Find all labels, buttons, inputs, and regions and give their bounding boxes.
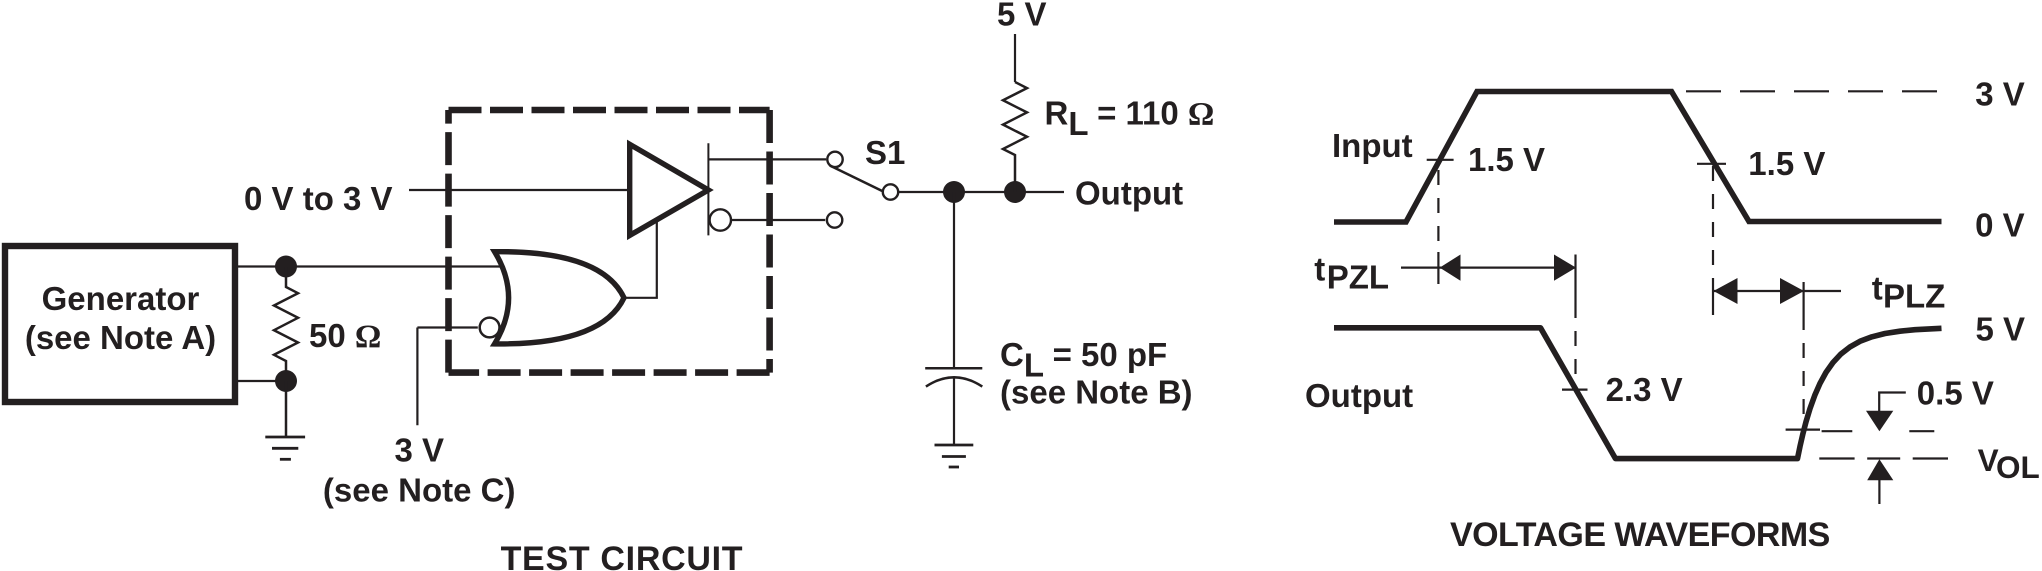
dashed guide at rising 1.5V — [1437, 170, 1439, 252]
0.5V down arrowhead — [1866, 411, 1893, 432]
0.5V leader line — [1879, 393, 1906, 413]
dashed 0.5V level line — [1822, 430, 1935, 432]
dashed 3V reference line — [1686, 90, 1945, 92]
wire generator upper output to NOR input — [238, 265, 503, 267]
svg-text:0 V to 3 V: 0 V to 3 V — [244, 180, 393, 217]
tPLZ measure line — [1714, 290, 1842, 292]
VOL up arrowhead — [1867, 459, 1893, 480]
dashed VOL level line — [1819, 457, 1948, 459]
solid tick at tPLZ left — [1712, 280, 1714, 315]
wire 5V to RL — [1014, 34, 1016, 82]
svg-text:t: t — [1872, 270, 1883, 307]
wire node to CL — [953, 192, 955, 368]
switch S1 blade — [830, 166, 882, 192]
svg-text:3 V: 3 V — [1975, 75, 2025, 112]
buffer triangle U1 — [630, 144, 709, 235]
svg-text:OL: OL — [1996, 449, 2040, 485]
wire NOR output to buffer enable — [624, 220, 657, 298]
output waveform trace — [1334, 328, 1942, 459]
dashed guide to output curve — [1802, 315, 1804, 427]
tPLZ right arrowhead — [1780, 278, 1804, 304]
svg-text:(see Note C): (see Note C) — [323, 471, 516, 508]
svg-text:(see Note A): (see Note A) — [25, 319, 216, 356]
svg-text:1.5 V: 1.5 V — [1748, 145, 1825, 182]
switch S1 upper throw contact — [827, 152, 842, 167]
dashed guide at falling 1.5V — [1712, 166, 1714, 280]
solid tick at tPZL left — [1437, 252, 1439, 284]
node dot CL junction — [943, 181, 965, 203]
wire upper throw — [708, 158, 826, 160]
ground symbol (50 ohm) — [265, 437, 305, 459]
dashed guide to 2.3V cross — [1574, 303, 1576, 388]
capacitor CL curved plate — [926, 377, 982, 386]
svg-text:Input: Input — [1332, 127, 1413, 164]
svg-text:(see Note B): (see Note B) — [1000, 374, 1193, 411]
tPLZ left arrowhead — [1714, 278, 1738, 304]
inverter bubble on NOR input — [480, 318, 500, 338]
resistor RL — [1003, 82, 1027, 192]
svg-text:0.5 V: 0.5 V — [1917, 375, 1994, 412]
svg-text:VOLTAGE WAVEFORMS: VOLTAGE WAVEFORMS — [1450, 516, 1830, 554]
tPZL right arrowhead — [1554, 255, 1576, 281]
svg-text:50 Ω: 50 Ω — [309, 317, 381, 355]
resistor 50 ohm — [274, 267, 298, 382]
svg-text:Output: Output — [1305, 377, 1413, 414]
svg-text:t: t — [1314, 251, 1325, 288]
svg-text:1.5 V: 1.5 V — [1468, 141, 1545, 178]
svg-text:Output: Output — [1075, 175, 1183, 212]
svg-text:0 V: 0 V — [1975, 206, 2025, 243]
svg-text:2.3 V: 2.3 V — [1606, 371, 1683, 408]
svg-text:5 V: 5 V — [1976, 311, 2026, 348]
wire lower throw — [732, 219, 826, 221]
dashed device boundary box — [449, 110, 770, 373]
output bubble — [710, 209, 731, 230]
cross tick rising 1.5V — [1427, 159, 1454, 161]
node junction dot upper (generator / 50 ohm) — [275, 256, 297, 278]
switch S1 pole contact — [883, 184, 898, 199]
cross tick falling 1.5V — [1697, 163, 1726, 165]
ground symbol (CL) — [935, 445, 974, 467]
input waveform trace — [1334, 92, 1942, 223]
node junction dot lower (50 ohm / ground) — [275, 370, 297, 392]
svg-text:3 V: 3 V — [395, 432, 445, 469]
wire generator lower terminal — [238, 380, 286, 382]
svg-text:Generator: Generator — [42, 280, 200, 317]
switch S1 lower throw contact — [827, 212, 842, 227]
svg-text:5 V: 5 V — [997, 0, 1047, 33]
wire CL to ground — [953, 378, 955, 446]
svg-text:TEST CIRCUIT: TEST CIRCUIT — [501, 540, 744, 571]
NOR gate U2 (OR with inverted input) — [495, 252, 624, 344]
node dot RL junction — [1004, 181, 1026, 203]
capacitor CL top plate — [925, 367, 982, 370]
generator box — [5, 246, 235, 402]
svg-text:PZL: PZL — [1327, 258, 1389, 295]
solid tick at tPLZ right — [1802, 282, 1804, 315]
wire to ground — [285, 381, 288, 437]
tPZL left arrowhead — [1440, 255, 1461, 281]
VOL arrow stem — [1878, 480, 1880, 504]
tPZL measure line — [1401, 267, 1576, 269]
buffer output bar — [707, 143, 709, 235]
wire pole to output node — [897, 191, 1064, 193]
svg-text:PLZ: PLZ — [1883, 277, 1945, 314]
solid tick at tPZL right — [1574, 255, 1576, 304]
svg-text:S1: S1 — [865, 134, 905, 171]
cross tick 0.5V on curve — [1786, 429, 1820, 431]
wire input to buffer — [409, 189, 630, 191]
cross tick 2.3V — [1562, 389, 1588, 391]
wire NOR lower input from 3V — [417, 326, 477, 328]
wire 3V vertical — [416, 328, 418, 426]
